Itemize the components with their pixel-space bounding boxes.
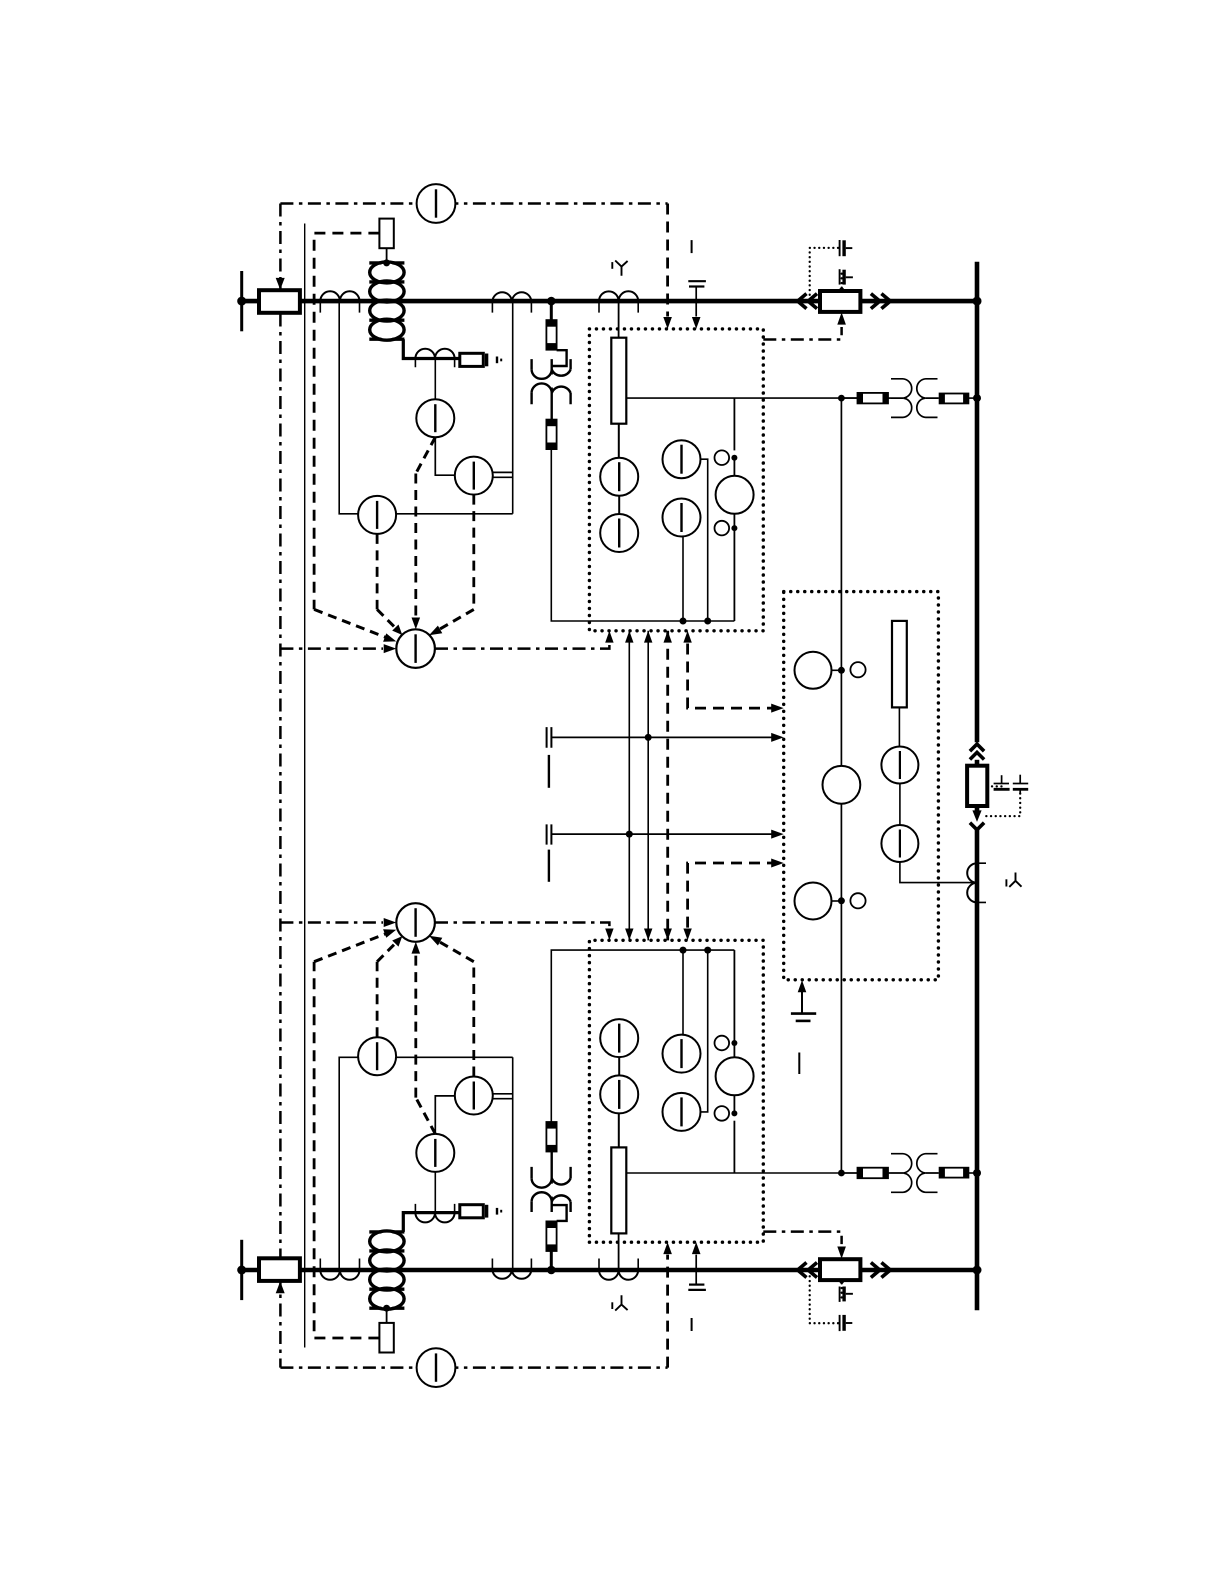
dash-dot rail branch into summing meter xyxy=(280,647,383,650)
circuit breaker CB4 (bus tie on right bus) xyxy=(967,766,987,806)
telemeter circle on dash-dot line xyxy=(417,184,456,223)
wire: PT signal line to fuse F3 xyxy=(841,397,857,399)
contact circle c2 xyxy=(715,521,730,536)
TOP HALF xyxy=(237,184,981,713)
meter C xyxy=(358,496,396,534)
voltage transformer PT2 (bus PT) xyxy=(888,379,940,418)
dash-dot control to breaker CB2 xyxy=(763,327,841,340)
relay element K3 xyxy=(892,621,907,708)
wire c1 to coil xyxy=(733,458,735,476)
label Y (wye) at right bus CT xyxy=(1006,873,1021,887)
voltage transformer PT1 secondary winding xyxy=(532,383,571,419)
wire F4 to right bus xyxy=(968,397,974,399)
node c2 xyxy=(731,525,737,531)
label Y (wye) at bus CT xyxy=(612,261,627,276)
node relay line / signal bus xyxy=(838,395,845,402)
dash-dot from summing meter to relay box xyxy=(435,642,609,649)
contact circle c1 xyxy=(715,450,730,465)
dashed output meter C to summing meter xyxy=(377,534,402,635)
arrow W1 into central box xyxy=(771,733,784,742)
CT2 on top bus xyxy=(492,292,531,312)
wire: fuse to PT primary xyxy=(552,350,567,366)
node on W1 at S2 xyxy=(645,734,652,741)
wire: long thin vertical line xyxy=(304,224,306,1348)
chevrons right of CB2 xyxy=(871,294,890,309)
earthing link symbol C at CB4 xyxy=(994,775,1010,789)
wires meter B to CT loop xyxy=(493,472,513,477)
wire: bus to fuse F1 xyxy=(550,301,553,320)
earthing link symbol A at CB2 xyxy=(810,240,853,298)
arrow from control rail into CB1 xyxy=(276,278,285,290)
CENTRAL AND RIGHT SINGLE ELEMENTS xyxy=(784,262,1028,1311)
right busbar (upper section) xyxy=(975,262,980,743)
node: top bus / right bus corner xyxy=(973,297,982,306)
node PT feed / meter M3 tap xyxy=(704,618,711,625)
fuse F1 xyxy=(546,320,556,350)
meter M3 xyxy=(663,440,701,478)
meter M1 xyxy=(600,458,638,496)
meter B xyxy=(455,457,493,495)
meter A xyxy=(416,399,454,437)
indicator circle lower with contact xyxy=(795,883,866,920)
coil circle xyxy=(716,476,754,514)
right busbar (stub above CB4) xyxy=(975,760,980,766)
neutral grounding resistor xyxy=(460,353,484,366)
summing meter (telecontrol) xyxy=(396,629,435,668)
right busbar (lower section) xyxy=(975,830,980,1311)
arrow into relay box top (dashed line) xyxy=(663,317,672,329)
CT on right bus xyxy=(967,863,986,902)
relay box (dotted) xyxy=(589,329,763,631)
arrow ground into central box xyxy=(798,980,807,992)
wire: dashed connector D1 between relay boxes xyxy=(666,631,669,941)
wire: K1 to meter M1 xyxy=(618,424,620,458)
chevrons above CB4 xyxy=(970,744,984,759)
ground (transformer neutral) xyxy=(485,354,488,367)
wire M4 down to PT feed xyxy=(682,536,684,621)
battery/source symbol E1 xyxy=(547,727,552,788)
meter M4 xyxy=(663,499,701,537)
arrow into summing meter (from tap loop) xyxy=(383,633,396,641)
wire: signal W1 to central device xyxy=(552,736,779,738)
circuit breaker CB2 (sectionalizing) xyxy=(820,291,860,312)
fuse F3 xyxy=(858,393,889,404)
dashed output meter B to summing meter xyxy=(429,495,474,636)
wire: neutral CT secondary to meter A xyxy=(434,359,436,400)
chevrons left of CB2 xyxy=(798,294,817,309)
SINGLETONS xyxy=(280,204,841,1368)
dashed diagonal into summing meter xyxy=(314,609,385,637)
wire: relay output line to PT assembly xyxy=(626,397,857,399)
ground of central box xyxy=(791,991,816,1021)
node at transformer top xyxy=(383,259,390,266)
wire meter A to meter B xyxy=(435,437,455,475)
earthing link symbol B at CB2 xyxy=(839,269,853,292)
wire: transformer neutral lead xyxy=(403,339,460,358)
battery/source symbol E2 xyxy=(547,824,552,881)
wire: drive box to transformer xyxy=(386,248,388,263)
arrow into summing meter (rail) xyxy=(384,644,397,653)
relay element K1 xyxy=(611,338,626,424)
wire N1 to N2 xyxy=(899,784,901,826)
bus end bar xyxy=(240,271,243,331)
CT3 (wye) on top bus xyxy=(599,291,638,312)
node PT feed / meter M4 xyxy=(680,618,687,625)
chevron below CB4 arrow xyxy=(970,823,984,830)
meter N1 xyxy=(881,747,918,784)
wire M1 to M2 xyxy=(618,496,620,514)
node on right bus xyxy=(973,394,981,402)
wire K3 to meter N1 xyxy=(898,707,900,746)
fuse F4 xyxy=(940,394,969,404)
fuse F2 xyxy=(546,420,556,450)
top busbar xyxy=(242,299,977,304)
central control box (dotted) xyxy=(784,592,939,980)
tick label below ground xyxy=(798,1053,800,1075)
node c1 xyxy=(731,455,737,461)
meter M2 xyxy=(600,514,638,552)
CT secondary loop through meter C xyxy=(339,303,513,514)
middle circle on signal bus xyxy=(823,766,861,804)
node on W2 at S1 xyxy=(626,831,633,838)
dashed output meter A to summing meter xyxy=(412,437,436,629)
dashed control drop into relay box top xyxy=(666,204,669,317)
wire: left control rail (dash-dot) xyxy=(279,204,282,1368)
wire c2 to PT feed line xyxy=(733,528,735,621)
indicator circle upper with contact xyxy=(795,652,866,689)
wire: connector line S2 between relay boxes xyxy=(647,631,649,941)
arrow capacitor line into relay box xyxy=(692,317,701,329)
wire: CT3 secondary to relay K1 xyxy=(618,301,620,338)
arrow into CB2 bottom xyxy=(837,312,846,324)
arrows into relay box bottom edge xyxy=(605,631,692,643)
power transformer T1 xyxy=(369,262,404,340)
bottom half mirror of top half xyxy=(237,859,981,1388)
wire: connector line S1 between relay boxes xyxy=(628,631,630,941)
wire: PT secondary feed into relay box xyxy=(551,449,734,621)
CT1 on top bus xyxy=(320,291,359,312)
wire M3 tap xyxy=(701,459,708,621)
arrow W2 into central box xyxy=(771,830,784,839)
wire: signal W2 to central device xyxy=(552,833,779,835)
wire: contact chain upper xyxy=(733,398,735,450)
meter N2 xyxy=(881,825,918,862)
bus end node xyxy=(237,297,246,306)
tap changer drive box xyxy=(379,219,393,249)
circuit breaker CB1 (left) xyxy=(259,290,300,313)
arrow D2 into central box xyxy=(771,704,784,713)
earthing link symbol D at CB4 xyxy=(986,775,1029,816)
capacitor tap symbol on bus xyxy=(688,240,706,316)
neutral CT xyxy=(415,349,454,368)
wire coil to c2 xyxy=(733,514,735,528)
wire: PT signal vertical bus x=841 xyxy=(840,398,842,1173)
dashed tap-changer control loop xyxy=(314,233,379,609)
arrow below CB4 xyxy=(972,810,981,822)
wire N2 to right bus CT xyxy=(900,862,974,883)
dash-dot control line to telemeter circle xyxy=(280,202,667,205)
dashed branch D2 to central box xyxy=(688,644,779,709)
dotted link CB4 to earthing symbol xyxy=(987,785,1003,787)
voltage transformer PT1 primary winding xyxy=(532,359,571,379)
bus tap node for voltage transformer xyxy=(547,297,556,306)
